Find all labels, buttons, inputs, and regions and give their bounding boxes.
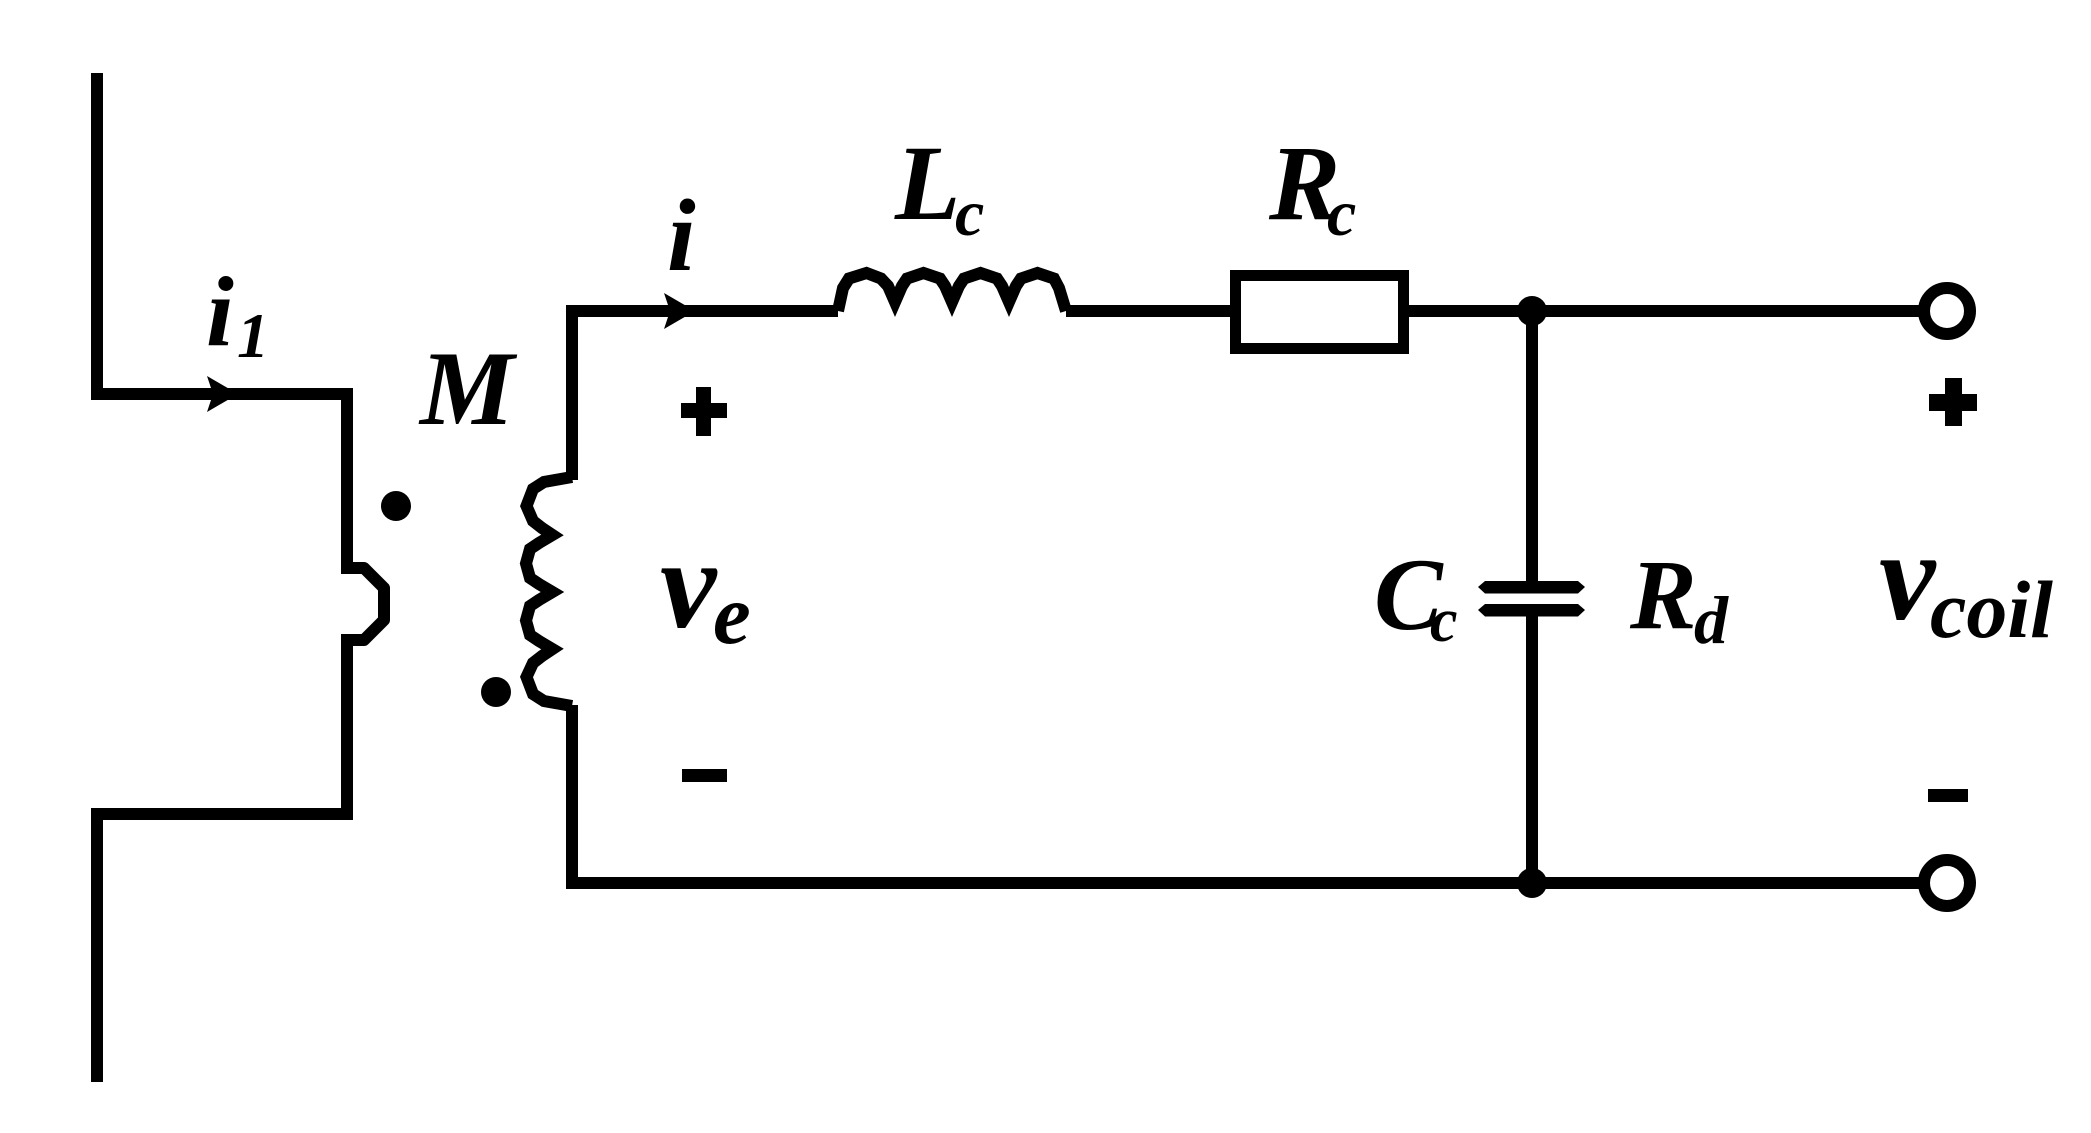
current arrow i [664,293,695,329]
svg-text:v: v [1879,507,1937,647]
wire: Cc branch lower [1526,616,1538,883]
coupling dot upper (primary) [381,491,411,521]
label + (ve polarity) [681,387,727,436]
label - (vcoil polarity) [1928,789,1968,802]
terminal top right (open circle) [1924,288,1970,334]
inductor secondary winding L2 (vertical, 4 loops) [526,477,572,706]
inductor Lc (4 loops on top rail) [838,273,1066,311]
svg-text:i: i [667,179,696,293]
wire: primary left vertical + top horizontal into dot-side vertical [97,73,347,574]
wire: primary lower vertical + bottom horizontal + left drop [97,634,347,1082]
svg-text:1: 1 [237,300,269,371]
svg-text:M: M [418,330,518,447]
svg-text:L: L [894,125,960,243]
svg-text:i: i [206,256,234,367]
wire: top rail between Lc and Rc [1066,305,1230,317]
svg-text:R: R [1629,539,1697,650]
coupling dot lower (secondary) [481,677,511,707]
current arrow i1 [207,376,238,412]
svg-text:c: c [1430,587,1458,655]
svg-text:v: v [660,515,718,655]
svg-text:coil: coil [1930,564,2053,655]
svg-text:e: e [713,568,751,662]
node junction dot bottom [1517,868,1547,898]
terminal bottom right (open circle) [1924,860,1970,906]
label + (vcoil polarity) [1929,378,1977,426]
svg-text:c: c [955,177,984,250]
wire: secondary top vertical and top rail to resistor [572,311,838,480]
wire: top rail from Rc to right terminal [1409,305,1925,317]
node junction dot top (Cc branch) [1517,296,1547,326]
wire: Cc branch upper [1526,311,1538,581]
capacitor Cc plate bottom [1478,604,1585,617]
svg-text:d: d [1694,582,1729,658]
capacitor Cc plate top [1478,581,1585,594]
resistor Rc (rectangle) [1236,276,1404,349]
inductor primary winding single loop (part of M-coupled primary) [347,568,384,640]
svg-text:c: c [1327,177,1356,250]
label - (ve polarity) [682,769,727,782]
wire: secondary lower vertical + bottom rail to output terminal [572,705,1925,883]
